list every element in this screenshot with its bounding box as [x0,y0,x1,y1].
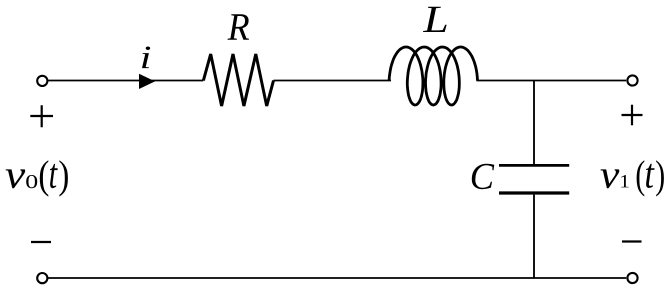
terminal top-right [627,75,637,85]
label v0(t) - left paren [40,160,49,196]
label L [423,7,447,32]
capacitor C top plate [499,164,569,167]
wire inductor-to-right-terminal [477,80,627,82]
terminal bottom-left [37,273,47,283]
wire capacitor top lead [533,81,535,165]
inductor L coil [389,47,477,105]
label v1(t) - right paren [656,160,664,196]
plus sign right [622,105,643,126]
label v0(t) - t [50,164,58,188]
label v1(t) - subscript 1 [621,175,628,187]
plus sign left [30,105,53,127]
terminal bottom-right [627,273,637,283]
terminal top-left [37,76,47,86]
minus sign right [622,240,642,242]
label v1(t) - t [646,164,655,188]
label v0(t) - subscript 0 [26,175,37,188]
label v1(t) - left paren [637,160,645,196]
wire capacitor bottom lead [533,195,535,278]
wire top-left segment [48,80,203,82]
wire bottom [48,277,626,279]
minus sign left [31,241,51,243]
current arrow i [139,74,155,89]
label i [142,47,150,69]
label v0(t) - right paren [59,160,68,196]
label v1(t) - v [601,169,620,188]
capacitor C bottom plate [499,191,569,194]
wire resistor-to-inductor [274,80,392,82]
label v0(t) - v [6,169,26,188]
label R [228,14,250,40]
label C [472,164,495,189]
resistor R zigzag [203,54,273,106]
